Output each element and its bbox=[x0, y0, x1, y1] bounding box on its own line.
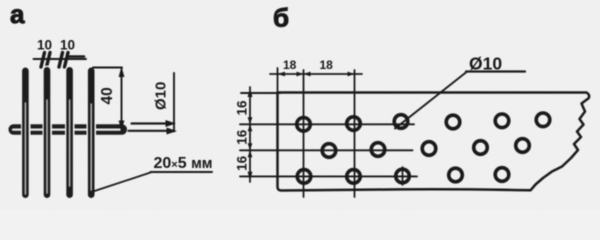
hole row2 c2 bbox=[371, 143, 385, 157]
dimension line 10/10 (top of figure a) bbox=[34, 58, 87, 60]
upper arrowhead bbox=[166, 120, 177, 127]
hole row2 c1 bbox=[322, 144, 336, 158]
flat bar 2 (white halo) bbox=[43, 66, 53, 200]
underline of diameter label bbox=[466, 70, 525, 72]
hole row3 c4 bbox=[449, 168, 463, 182]
hole row2 c5 bbox=[516, 139, 530, 153]
arrowhead at col2 bbox=[348, 72, 355, 77]
extension line col 2 bbox=[354, 70, 356, 197]
arrowhead at row3 (down) bbox=[248, 172, 253, 180]
underline of 20x5 label bbox=[151, 171, 213, 173]
dimension line 16 chain (vertical) bbox=[249, 87, 251, 182]
flat bar 3 bbox=[66, 67, 73, 198]
hole row1 c5 bbox=[495, 114, 509, 128]
leader line diameter 10 bbox=[395, 72, 467, 129]
upper arrow to rod bbox=[132, 122, 169, 124]
flat bar 4 bbox=[88, 68, 95, 199]
lower arrow to rod bbox=[129, 130, 169, 132]
hole row3 c1 bbox=[297, 170, 311, 184]
center line row 2 bbox=[240, 149, 413, 151]
smear above dim line bbox=[69, 55, 84, 58]
arrow slashes bar3 right bbox=[65, 53, 69, 68]
extension line top edge (left) bbox=[241, 92, 280, 94]
arrowheads at row2 (double) bbox=[248, 143, 253, 157]
flat bar 1 bbox=[22, 68, 29, 199]
hole row2 c4 bbox=[474, 141, 488, 155]
lower arrowhead bbox=[167, 128, 178, 135]
flat bar 3 (white halo) bbox=[65, 66, 75, 200]
flat bar 4 (white halo) bbox=[87, 66, 97, 199]
hole row3 c3 bbox=[396, 169, 410, 183]
center tick row3 c3 bbox=[402, 167, 404, 185]
dimension line 18/18 bbox=[270, 73, 362, 75]
hole row1 c2 bbox=[347, 117, 361, 131]
leader line for 20x5 label bbox=[93, 173, 151, 192]
hole row1 c6 bbox=[536, 113, 550, 127]
arrow slashes bar2 right bbox=[47, 53, 51, 68]
extension line col A (plate left edge above plate) bbox=[277, 68, 279, 92]
arrowheads at col1 (double) bbox=[297, 72, 311, 77]
extension line right of rod bbox=[173, 73, 175, 132]
arrowheads at row1 (double) bbox=[248, 117, 253, 131]
hole row1 c3 (leader target) bbox=[394, 115, 408, 129]
center line row 1 bbox=[240, 123, 414, 125]
arrowhead top of 40 bbox=[119, 67, 125, 78]
hole row3 c2 bbox=[347, 170, 361, 184]
extension tick top of 40 dimension bbox=[93, 67, 122, 69]
dimension line 40 (vertical) bbox=[121, 68, 123, 131]
arrow slashes bar2 left bbox=[41, 53, 45, 68]
hole row3 c5 bbox=[495, 168, 509, 182]
hole row2 c3 bbox=[422, 142, 436, 156]
hole row1 c4 bbox=[446, 115, 460, 129]
arrow slashes bar3 left bbox=[59, 53, 63, 68]
plate outline bbox=[278, 93, 590, 191]
rod (round bar 10mm, horizontal) bbox=[9, 124, 128, 134]
arrowhead at left edge bbox=[278, 72, 286, 77]
hole row1 c1 bbox=[297, 118, 311, 132]
arrowhead bottom of 40 bbox=[119, 121, 125, 131]
flat bar 1 (white halo) bbox=[21, 66, 31, 199]
center line row 3 bbox=[240, 175, 417, 177]
arrowhead top (up) bbox=[248, 89, 253, 97]
flat bar 2 bbox=[44, 67, 51, 198]
extension line col 1 bbox=[303, 70, 305, 197]
